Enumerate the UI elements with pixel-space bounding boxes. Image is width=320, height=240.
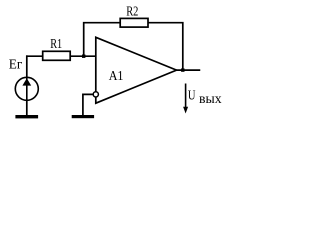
svg-text:R2: R2 bbox=[126, 4, 138, 19]
svg-text:A1: A1 bbox=[109, 69, 124, 84]
svg-text:вых: вых bbox=[199, 92, 222, 107]
svg-text:R1: R1 bbox=[50, 37, 62, 52]
svg-text:U: U bbox=[188, 89, 196, 104]
svg-text:Eг: Eг bbox=[9, 57, 23, 72]
